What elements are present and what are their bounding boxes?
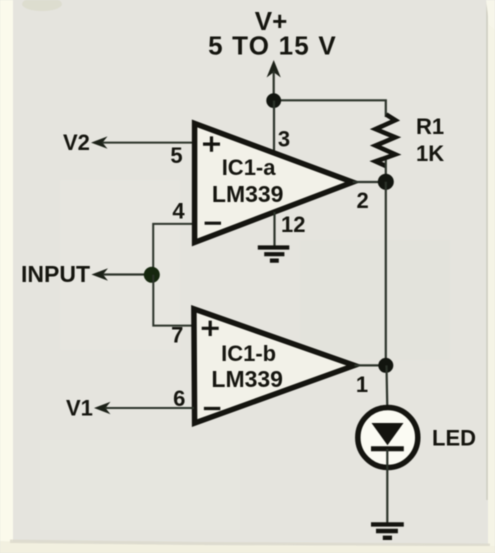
svg-text:2: 2 [356,188,368,213]
minus input symbol IC1-b [204,407,220,410]
op-amp U1 IC1-a [195,123,353,242]
minus input symbol IC1-a [205,222,221,225]
wire pin3 from V+ node to op-amp top edge [273,101,275,153]
right page edge strip [488,0,495,553]
svg-text:3: 3 [278,127,290,152]
svg-text:INPUT: INPUT [21,261,90,287]
bottom edge shadow line [10,540,490,547]
faint scan blotches [60,180,180,350]
wire V+ node to resistor top corner [274,100,386,117]
svg-text:IC1-a: IC1-a [222,155,277,180]
svg-text:V1: V1 [66,396,93,421]
svg-text:1: 1 [356,372,368,397]
node INPUT [144,267,160,283]
svg-text:R1: R1 [416,114,444,139]
wire IC1-a output to node [353,181,386,183]
LED diode triangle [372,423,404,445]
svg-text:IC1-b: IC1-b [221,341,276,366]
svg-text:6: 6 [173,386,185,411]
left page edge strip [0,0,13,553]
wire LED to ground [386,449,388,524]
wire INPUT arrow to node [103,273,152,275]
wire V2 to pin5 [102,142,194,144]
LED cathode bar [371,446,404,451]
svg-text:5 TO 15 V: 5 TO 15 V [208,31,337,61]
svg-text:4: 4 [172,199,185,224]
resistor R1 [376,115,396,167]
arrow V2 [91,136,108,148]
svg-text:LED: LED [432,426,476,451]
bottom page edge strip [0,541,495,553]
wire V+ arrow to node [273,71,275,101]
V+ arrow [267,60,281,78]
ground (pin 12) [258,248,290,261]
arrow INPUT [91,268,108,280]
wire pin7 from INPUT node [153,275,194,326]
svg-text:12: 12 [281,212,305,237]
wire node B to LED [387,365,388,424]
svg-text:LM339: LM339 [212,181,284,207]
LED D1 [358,408,418,468]
svg-text:7: 7 [171,323,183,348]
ground (LED) [371,524,404,537]
wire IC1-b output to node [354,364,386,366]
right edge crease line [486,0,488,500]
wire pin4 [153,224,194,274]
wire resistor bottom to node [385,160,387,182]
wire bus node A down to node B [385,182,387,366]
node output A / R1 bottom [378,174,394,190]
svg-text:1K: 1K [416,141,444,166]
wire pin12 to ground [273,212,275,248]
svg-text:LM339: LM339 [211,366,283,392]
node V+ [266,93,281,108]
op-amp U2 IC1-b [194,309,355,423]
arrow V1 [94,402,111,414]
svg-text:V2: V2 [63,130,90,155]
plus input symbol IC1-a [203,136,220,151]
node output B [378,358,393,373]
svg-text:5: 5 [170,143,182,168]
plus input symbol IC1-b [202,321,219,336]
top-left corner smudge [22,0,62,11]
wire V1 to pin6 [105,407,194,409]
top-right corner light patch [486,0,495,30]
